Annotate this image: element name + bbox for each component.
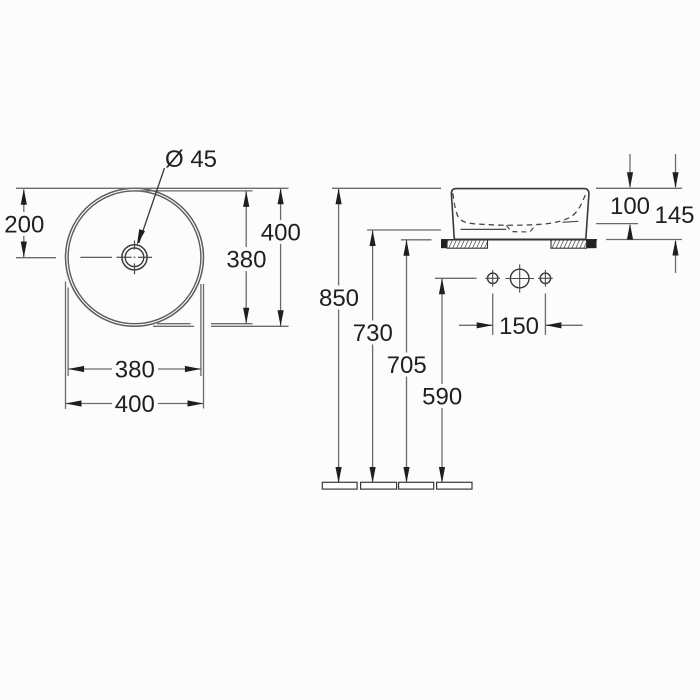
drain recess dashed [507, 225, 536, 232]
dimension 380 vertical line [245, 191, 247, 324]
svg-text:400: 400 [115, 391, 155, 418]
dimension 380 vertical label [224, 247, 269, 274]
dimension 400 horizontal arrows [66, 400, 204, 406]
countertop right hatched section [551, 240, 587, 248]
dimension 200 line [23, 190, 25, 258]
dimension 150 left arrow [459, 322, 493, 328]
bottom tangent outer segment under circle [153, 325, 194, 327]
dimension 590 label [420, 384, 466, 411]
hole extension line left [492, 294, 494, 336]
faucet hole right cross [538, 270, 553, 287]
dimension 705 arrows [403, 240, 409, 483]
faucet hole centre circle [510, 269, 529, 288]
dimension 380 horizontal label [112, 357, 158, 384]
floor segment 4 [437, 482, 472, 489]
extension line hole centres [435, 277, 477, 279]
dimension 400 horizontal label [112, 391, 158, 418]
faucet hole right circle [540, 273, 550, 283]
dimension 850 line [338, 188, 340, 483]
dimension 590 arrows [439, 278, 445, 483]
countertop left hatched section [447, 240, 488, 248]
top tangent extension line (inner, 380 ref) [134, 190, 253, 192]
drain hole inner circle [125, 248, 144, 267]
svg-text:400: 400 [261, 220, 301, 247]
right extension line for 400 [203, 284, 205, 409]
bottom tangent inner segment right [211, 323, 253, 325]
extension line basin top right [596, 187, 682, 189]
dimension 200 arrows [21, 189, 27, 258]
inner bowl dashed profile [453, 193, 586, 225]
dimension 200 label [2, 212, 47, 239]
hole extension line right [544, 294, 546, 336]
basin side profile outline [451, 189, 589, 240]
dimension 705 label [384, 352, 430, 379]
drain centre mark vertical [134, 241, 136, 275]
top tangent extension line (outer, 400 ref) [16, 187, 289, 189]
interior edge line right [562, 221, 578, 222]
floor segment 2 [361, 482, 397, 489]
left extension line for 380 [67, 288, 69, 377]
extension line counter top right [606, 239, 682, 241]
left extension line for 400 [65, 282, 67, 410]
svg-text:200: 200 [4, 212, 44, 239]
svg-text:730: 730 [353, 320, 393, 347]
countertop right end cap [587, 240, 597, 248]
right extension line for 380 [200, 284, 202, 376]
faucet hole left cross [485, 270, 500, 287]
dimension 400 vertical line [280, 188, 282, 326]
svg-text:590: 590 [422, 384, 462, 411]
dimension 380 vertical arrows [243, 191, 249, 324]
dimension 705 line [406, 240, 408, 483]
drain hole outer circle [122, 245, 147, 270]
inner rim circle [68, 191, 201, 324]
outer rim circle [66, 188, 204, 326]
dimension 850 arrows [336, 188, 342, 483]
centreline left of circle [16, 257, 56, 259]
extension line 705 reference [401, 239, 432, 241]
svg-text:145: 145 [654, 202, 694, 229]
dimension 380 horizontal arrows [68, 366, 201, 372]
dimension 150 right arrow [545, 322, 582, 328]
dimension 730 line [372, 230, 374, 483]
dimension 590 line [441, 278, 443, 483]
floor segment 3 [399, 482, 434, 489]
svg-text:380: 380 [226, 247, 266, 274]
svg-text:850: 850 [319, 285, 359, 312]
dimension 730 label [350, 320, 396, 347]
dimension 100 top arrow [627, 154, 633, 188]
dimension 380 horizontal line [68, 368, 201, 370]
svg-text:100: 100 [610, 193, 650, 220]
floor segment 1 [322, 482, 357, 489]
dimension 145 bottom arrow [672, 240, 678, 274]
countertop left end cap [441, 240, 447, 248]
svg-text:150: 150 [499, 313, 539, 340]
extension line bowl depth right [596, 223, 638, 225]
dimension 400 vertical label [258, 220, 303, 247]
dimension 145 top arrow [672, 154, 678, 188]
extension line 730 reference [367, 229, 441, 231]
bottom tangent outer segment right [211, 325, 289, 327]
dimension 100 bottom arrow [627, 224, 633, 240]
drain diameter leader arrowhead [137, 229, 145, 245]
drain diameter leader line [139, 168, 165, 243]
svg-text:380: 380 [115, 357, 155, 384]
extension line basin top left [332, 187, 441, 189]
dimension 730 arrows [370, 230, 376, 483]
dimension 400 horizontal line [66, 403, 204, 405]
interior edge line left [461, 228, 507, 230]
drain centre mark horizontal [80, 256, 152, 258]
svg-text:705: 705 [387, 352, 427, 379]
faucet hole left circle [488, 273, 498, 283]
bottom tangent inner segment under circle [157, 323, 191, 325]
dimension 400 vertical arrows [278, 188, 284, 326]
faucet hole centre cross [506, 264, 534, 292]
countertop surface line [441, 239, 597, 241]
svg-text:Ø 45: Ø 45 [165, 146, 217, 173]
dimension 850 label [316, 285, 362, 312]
